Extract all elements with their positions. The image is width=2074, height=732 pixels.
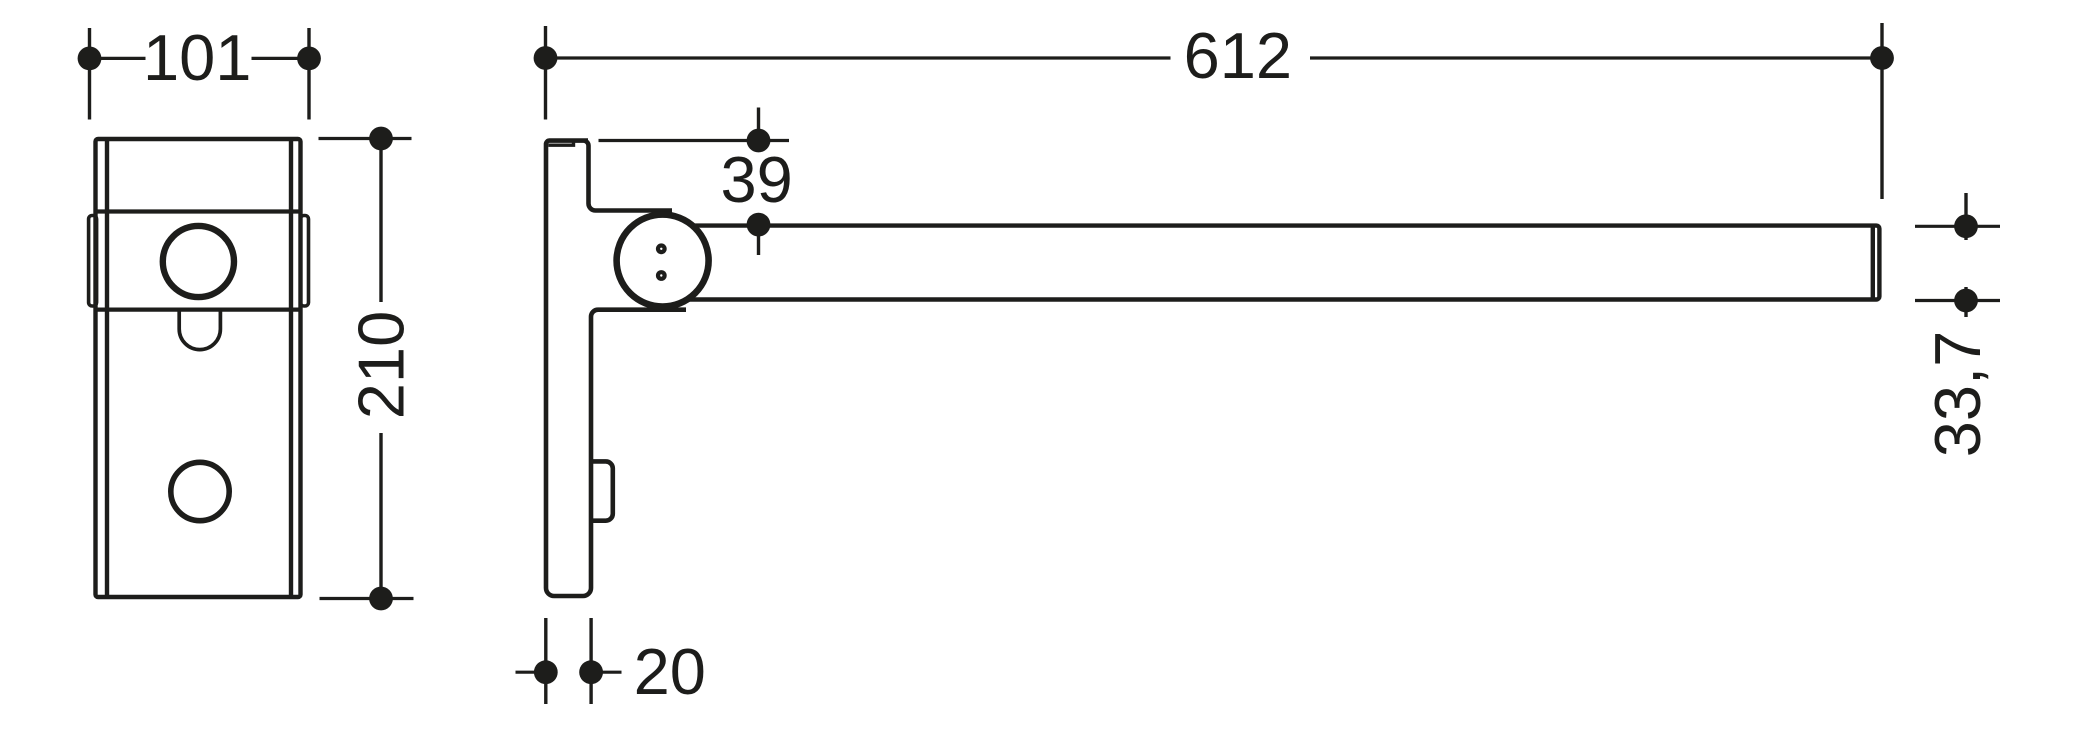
dimension line left segment xyxy=(516,671,546,674)
svg-text:101: 101 xyxy=(143,21,251,94)
dimension dot upper xyxy=(1954,214,1978,238)
extension line through upper dot xyxy=(1915,225,2000,228)
arm bar end inner line xyxy=(1871,228,1875,298)
dimension line above upper dot xyxy=(1964,193,1967,240)
extension line through lower dot xyxy=(1915,299,2000,302)
dimension dot top xyxy=(369,127,393,151)
dimension line left segment xyxy=(90,57,146,60)
dimension dot right xyxy=(1870,46,1894,70)
dimension dot lower xyxy=(1954,289,1978,313)
extension line right xyxy=(307,28,310,120)
pivot pin lower dot xyxy=(656,270,667,281)
dimension dot left xyxy=(534,660,558,684)
right mounting tab xyxy=(301,216,309,307)
extension line right xyxy=(589,618,592,704)
dimension dot left xyxy=(78,47,102,71)
dimension line upper segment xyxy=(379,139,382,303)
svg-text:612: 612 xyxy=(1184,19,1292,92)
dimension line right segment xyxy=(252,57,310,60)
lower hole circle xyxy=(171,462,229,520)
dimension dot bottom xyxy=(369,587,393,611)
extension line left xyxy=(544,26,547,120)
pivot pin upper dot xyxy=(656,243,667,254)
dimension line below lower dot xyxy=(1964,287,1967,317)
inner left edge line xyxy=(105,141,109,595)
extension line right xyxy=(1880,23,1883,199)
svg-text:20: 20 xyxy=(634,635,706,708)
dimension line right segment xyxy=(591,671,621,674)
left mounting tab xyxy=(89,216,97,307)
latch detail on plate xyxy=(591,461,613,520)
dimension line left segment xyxy=(546,56,1171,59)
arm bar top line xyxy=(663,226,1879,300)
inner right edge line xyxy=(289,141,293,595)
dimension dot right xyxy=(579,660,603,684)
plate top inner edge line xyxy=(548,141,573,145)
extension line through upper dot xyxy=(599,139,790,142)
svg-text:33,7: 33,7 xyxy=(1921,331,1994,458)
dimension dot upper xyxy=(747,129,771,153)
extension line top xyxy=(319,137,412,140)
pivot circle xyxy=(617,215,709,307)
dimension dot right xyxy=(297,47,321,71)
extension line left xyxy=(88,28,91,120)
extension line left xyxy=(544,618,547,704)
extension line bottom xyxy=(320,597,414,600)
plate side outline xyxy=(546,141,686,596)
cover band bottom line xyxy=(96,308,301,312)
upper hole circle xyxy=(163,226,234,297)
dimension dot left xyxy=(534,46,558,70)
cover band top line xyxy=(96,209,301,213)
keyhole notch below band xyxy=(179,310,220,350)
dimension line below lower dot xyxy=(757,225,760,256)
svg-text:39: 39 xyxy=(720,143,792,216)
wall plate outer rectangle xyxy=(96,139,301,597)
dimension dot lower xyxy=(747,213,771,237)
svg-text:210: 210 xyxy=(345,311,418,419)
dimension line right segment xyxy=(1310,56,1882,59)
dimension line above upper dot xyxy=(757,108,760,153)
dimension line lower segment xyxy=(379,433,382,599)
